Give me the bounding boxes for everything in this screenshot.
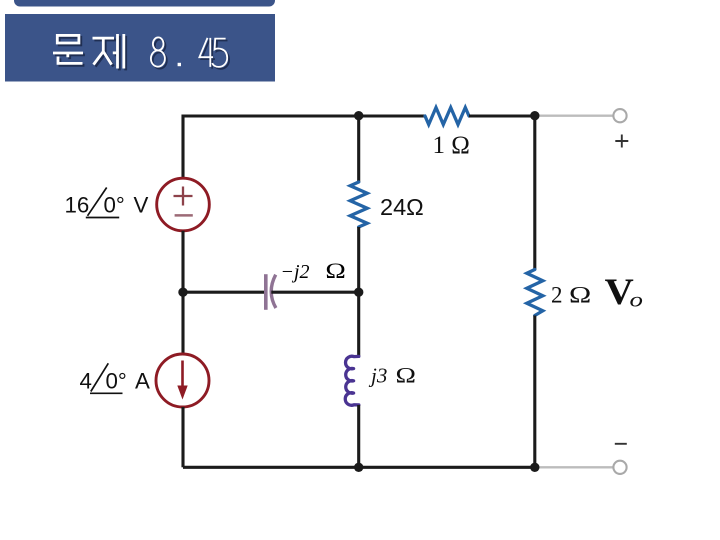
capacitor C1 -j2 Ohm xyxy=(266,274,276,310)
junction bottom middle xyxy=(354,463,363,472)
junction bottom right xyxy=(530,463,539,472)
resistor R2 24 Ohm xyxy=(350,182,367,227)
label 4 angle 0 A xyxy=(80,363,151,393)
svg-text:j3: j3 xyxy=(368,364,387,388)
title banner strip xyxy=(14,0,275,7)
svg-text:4: 4 xyxy=(80,368,92,393)
svg-text:2: 2 xyxy=(551,283,563,308)
wire left between sources xyxy=(181,231,184,354)
terminal top xyxy=(613,109,626,122)
svg-text:Ω: Ω xyxy=(569,282,591,308)
svg-text:1 Ω: 1 Ω xyxy=(433,132,470,159)
svg-text:0°: 0° xyxy=(104,193,125,218)
wire right top xyxy=(533,116,536,270)
gray wire to top terminal xyxy=(535,115,613,117)
inductor L1 j3 Ohm xyxy=(345,356,359,405)
title text shadow xyxy=(55,36,229,71)
wire middle horizontal left xyxy=(183,291,266,294)
resistor R3 2 Ohm xyxy=(527,270,543,316)
wire middle branch center xyxy=(357,227,360,356)
wire left bottom xyxy=(181,407,184,467)
label 16 angle 0 V xyxy=(65,188,149,218)
wire right bottom xyxy=(533,316,536,468)
junction middle center xyxy=(354,288,363,297)
wire top left vertical xyxy=(183,116,425,179)
svg-text:16: 16 xyxy=(65,193,90,218)
wire middle horizontal right xyxy=(271,291,358,294)
svg-text:Ω: Ω xyxy=(396,364,416,388)
gray wire to bottom terminal xyxy=(535,466,613,468)
title glyph MUN xyxy=(53,35,83,63)
svg-text:A: A xyxy=(135,368,150,393)
wire bottom xyxy=(183,466,535,469)
resistor R1 1 Ohm xyxy=(425,108,469,125)
wire top right xyxy=(469,114,535,117)
svg-text:Ω: Ω xyxy=(325,259,345,283)
voltage source V1 xyxy=(157,178,210,231)
label plus xyxy=(615,135,628,148)
label minus xyxy=(615,443,627,445)
svg-text:−j2: −j2 xyxy=(281,261,310,283)
title box xyxy=(5,14,275,82)
terminal bottom xyxy=(613,461,626,474)
wire middle branch top xyxy=(357,116,360,182)
junction top right xyxy=(530,111,539,120)
junction top middle xyxy=(354,111,363,120)
svg-text:V: V xyxy=(134,193,149,218)
title text 8.45 xyxy=(151,37,227,67)
wire middle branch bottom xyxy=(357,405,360,467)
current source I1 xyxy=(156,354,209,407)
svg-text:0°: 0° xyxy=(106,368,127,393)
title glyph JE xyxy=(93,34,124,69)
svg-text:o: o xyxy=(630,289,643,312)
junction middle left xyxy=(178,288,187,297)
svg-text:24Ω: 24Ω xyxy=(380,194,424,220)
label Vo xyxy=(605,272,634,312)
